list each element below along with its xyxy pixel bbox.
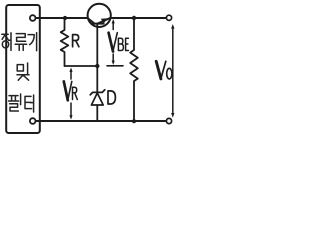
node: load resistor top junction [132, 16, 136, 20]
node: load resistor bottom junction [132, 119, 136, 123]
label V_BE [109, 33, 113, 52]
input terminal top [30, 15, 36, 21]
rectifier/filter block box [6, 5, 40, 133]
resistor R (zigzag) [61, 18, 69, 66]
node: R top junction [63, 16, 67, 20]
hangul label 필터 (filter) [9, 94, 34, 112]
load resistor (output) [130, 18, 138, 121]
label V_0 [156, 61, 161, 79]
label R [73, 35, 79, 47]
emitter arrowhead [101, 18, 108, 23]
input terminal bottom [30, 118, 36, 124]
label D [108, 91, 115, 104]
label V_R [64, 81, 68, 100]
hangul label 및 (and) [17, 63, 29, 80]
V_O measurement arrow line [172, 27, 174, 115]
wire: bottom rail [36, 120, 167, 122]
V_BE measurement arrows [112, 22, 114, 30]
output terminal bottom [166, 118, 171, 123]
zener diode D [96, 66, 98, 92]
wire: base rail (R bottom to base node) [65, 65, 98, 67]
node: base junction [95, 64, 99, 68]
V_BE reference tick [107, 65, 123, 67]
transistor Q1 (series pass, NPN) [88, 4, 111, 66]
V_R measurement arrows [70, 70, 72, 79]
hangul label 정류기 (rectifier) [2, 33, 37, 51]
wire: top rail left (input to transistor collector) [36, 17, 88, 19]
output terminal top [166, 15, 171, 20]
wire: top rail right (emitter to output) [110, 17, 166, 19]
